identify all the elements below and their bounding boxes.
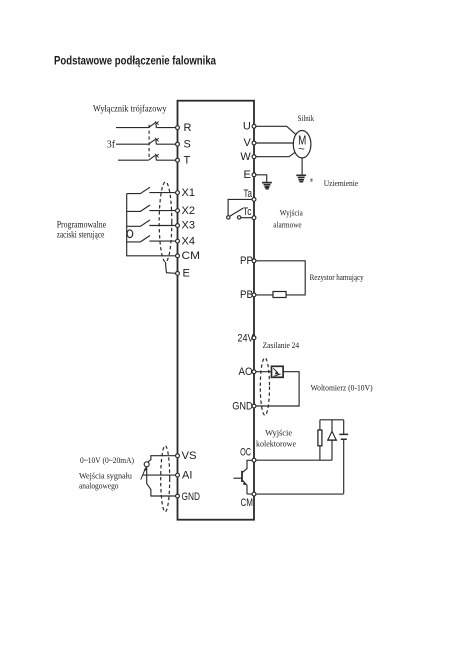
- svg-text:Wyłącznik trójfazowy: Wyłącznik trójfazowy: [93, 104, 167, 114]
- svg-text:GND: GND: [232, 401, 253, 413]
- svg-text:Tc: Tc: [243, 206, 252, 218]
- svg-text:T: T: [184, 154, 191, 166]
- svg-text:GND: GND: [182, 491, 201, 503]
- svg-text:kolektorowe: kolektorowe: [256, 439, 296, 449]
- svg-text:Podstawowe podłączenie falowni: Podstawowe podłączenie falownika: [54, 56, 217, 68]
- svg-text:Rezystor hamujący: Rezystor hamujący: [310, 272, 365, 282]
- svg-text:X3: X3: [182, 220, 195, 232]
- svg-text:24V: 24V: [238, 333, 255, 345]
- svg-text:U: U: [243, 121, 251, 133]
- svg-text:AI: AI: [182, 469, 192, 481]
- svg-text:CM: CM: [182, 250, 201, 262]
- svg-text:VS: VS: [182, 450, 197, 462]
- svg-text:PB: PB: [240, 289, 253, 301]
- svg-text:X4: X4: [182, 235, 195, 247]
- svg-text:3f: 3f: [107, 139, 116, 150]
- svg-text:X1: X1: [182, 187, 195, 199]
- svg-text:Uziemienie: Uziemienie: [324, 178, 359, 188]
- svg-text:Ta: Ta: [244, 188, 253, 200]
- svg-text:alarmowe: alarmowe: [273, 220, 301, 230]
- svg-text:W: W: [240, 151, 251, 163]
- svg-text:zaciski sterujące: zaciski sterujące: [57, 230, 105, 240]
- svg-text:Wyjście: Wyjście: [265, 428, 292, 438]
- svg-text:~: ~: [298, 144, 304, 156]
- svg-text:R: R: [184, 122, 192, 134]
- svg-text:Programowalne: Programowalne: [57, 219, 107, 229]
- svg-text:Silnik: Silnik: [298, 114, 315, 123]
- svg-text:V: V: [243, 137, 251, 149]
- svg-text:AO: AO: [239, 366, 253, 378]
- svg-text:0~10V (0~20mA): 0~10V (0~20mA): [80, 455, 134, 465]
- svg-text:Wejścia sygnału: Wejścia sygnału: [79, 471, 133, 481]
- svg-text:analogowego: analogowego: [79, 480, 119, 490]
- svg-text:X2: X2: [182, 205, 195, 217]
- svg-text:Wyjścia: Wyjścia: [280, 208, 303, 218]
- svg-text:OC: OC: [240, 447, 251, 459]
- svg-text:S: S: [184, 138, 191, 150]
- svg-text:PP: PP: [240, 255, 253, 267]
- svg-text:Woltomierz (0-10V): Woltomierz (0-10V): [311, 382, 373, 392]
- svg-text:CM: CM: [241, 497, 254, 509]
- svg-text:E: E: [183, 268, 190, 280]
- svg-text:Zasilanie 24: Zasilanie 24: [263, 341, 300, 350]
- svg-text:E: E: [243, 169, 250, 181]
